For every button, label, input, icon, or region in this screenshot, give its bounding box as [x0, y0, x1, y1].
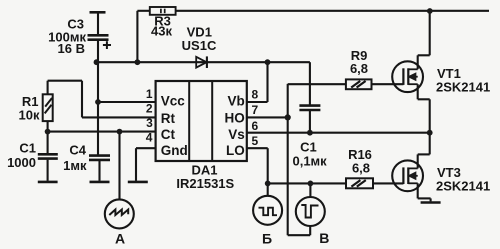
svg-text:1: 1 — [146, 87, 153, 101]
svg-text:1000: 1000 — [7, 155, 36, 170]
svg-text:2SK2141: 2SK2141 — [436, 80, 490, 95]
svg-text:0,1мк: 0,1мк — [292, 153, 327, 168]
svg-text:Vb: Vb — [228, 93, 245, 108]
svg-text:7: 7 — [252, 103, 259, 117]
svg-text:8: 8 — [252, 88, 259, 102]
svg-text:6,8: 6,8 — [352, 161, 370, 176]
svg-text:5: 5 — [252, 134, 259, 148]
svg-text:LO: LO — [226, 143, 245, 158]
svg-text:Vs: Vs — [228, 127, 245, 142]
svg-text:C4: C4 — [69, 143, 86, 158]
svg-text:6,8: 6,8 — [350, 61, 368, 76]
svg-text:US1C: US1C — [182, 38, 217, 53]
svg-text:1мк: 1мк — [63, 158, 87, 173]
svg-text:Rt: Rt — [161, 111, 176, 126]
svg-text:43к: 43к — [151, 24, 172, 39]
svg-text:Vcc: Vcc — [161, 93, 186, 108]
svg-text:А: А — [115, 230, 125, 246]
svg-text:C1: C1 — [19, 141, 36, 156]
svg-text:10к: 10к — [19, 108, 40, 123]
svg-text:Б: Б — [262, 231, 272, 247]
svg-text:Ct: Ct — [161, 127, 176, 142]
svg-text:IR21531S: IR21531S — [176, 176, 234, 191]
svg-text:HO: HO — [225, 111, 245, 126]
svg-text:4: 4 — [146, 131, 153, 145]
svg-text:3: 3 — [146, 116, 153, 130]
svg-text:В: В — [319, 230, 329, 246]
svg-text:2SK2141: 2SK2141 — [436, 179, 490, 194]
svg-text:6: 6 — [252, 119, 259, 133]
svg-text:16 В: 16 В — [58, 41, 85, 56]
svg-text:2: 2 — [146, 102, 153, 116]
svg-text:Gnd: Gnd — [161, 143, 188, 158]
